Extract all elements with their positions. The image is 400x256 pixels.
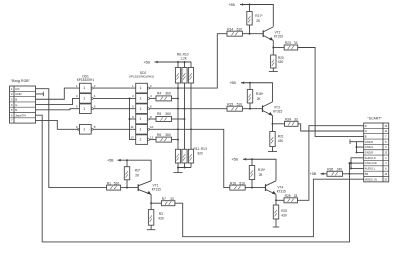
resistor R22 430 — [275, 200, 277, 205]
svg-text:КР1533ЛН1: КР1533ЛН1 — [77, 78, 94, 82]
op DD2.4 inverter pins 9-8 — [136, 114, 148, 124]
svg-text:GND,B: GND,B — [365, 140, 373, 144]
svg-text:R19*: R19* — [258, 168, 266, 172]
svg-text:2К: 2К — [259, 173, 263, 177]
svg-text:R20: R20 — [278, 56, 284, 60]
node junction R14/R17/base — [249, 33, 251, 35]
node junction R4 / v1 — [177, 97, 179, 99]
node junction R line — [177, 128, 179, 130]
svg-text:R11..R13: R11..R13 — [194, 147, 207, 151]
wire: DD1.3 out to DD2.3 in — [93, 108, 136, 110]
resistor R12 820 — [182, 149, 187, 163]
resistor R9 1.2K — [182, 68, 187, 84]
wire: R line DD2.5 out to R16 — [149, 129, 229, 187]
svg-text:КТ315: КТ315 — [152, 188, 161, 192]
svg-text:КТ315: КТ315 — [273, 109, 282, 113]
wire: SCART ground pins 5 9 13 bus — [350, 142, 364, 153]
svg-text:GND,G: GND,G — [365, 145, 374, 149]
wire: pin3 B to DD1.1 input — [36, 88, 80, 99]
op DD1.3 inverter pins 5-6 — [80, 104, 92, 114]
svg-text:R5: R5 — [157, 112, 161, 116]
resistor R21 430 — [272, 124, 274, 132]
svg-text:R6: R6 — [157, 133, 161, 137]
resistor R20 430 — [272, 48, 274, 56]
node junction +5V rail — [177, 61, 179, 63]
svg-text:FB: FB — [365, 172, 369, 176]
node junction R6 / v1 — [177, 139, 179, 141]
svg-text:КР1533ЛН2(ЛН3): КР1533ЛН2(ЛН3) — [129, 75, 154, 79]
wire: DD1.1 out to DD2.1 in — [93, 87, 136, 89]
wire: B line DD2.1 out to R14 — [149, 34, 227, 88]
svg-text:1: 1 — [140, 107, 142, 111]
wire: VT2 output to SCART pin 7 B — [298, 48, 364, 137]
svg-text:13: 13 — [130, 135, 134, 139]
svg-text:B: B — [365, 134, 367, 138]
node junction SCART gnd bus — [356, 146, 358, 148]
svg-text:R18*: R18* — [256, 92, 264, 96]
transistor VT3 KT315 — [262, 105, 264, 112]
svg-text:10: 10 — [150, 125, 154, 129]
svg-text:430: 430 — [278, 139, 284, 143]
resistor R2* 2K — [126, 160, 128, 167]
svg-text:1: 1 — [140, 97, 142, 101]
svg-text:+5В: +5В — [229, 3, 236, 7]
wire: VT4 output to SCART pin 15 R — [298, 126, 364, 201]
svg-text:360: 360 — [165, 133, 171, 137]
ground below R3 — [147, 229, 156, 231]
svg-text:R21: R21 — [278, 135, 284, 139]
wire: R26 to SCART pin 16 FB — [343, 173, 364, 175]
op DD2.1 inverter pins 1-2 — [136, 83, 148, 93]
wire: pin2 GND stub — [36, 93, 44, 95]
svg-text:1: 1 — [140, 117, 142, 121]
svg-text:R2*: R2* — [135, 168, 141, 172]
transistor VT1 KT315 — [137, 184, 139, 191]
svg-text:11: 11 — [131, 125, 134, 129]
wire: DD1.2 out to DD2.2 in — [93, 97, 136, 99]
svg-text:+5В: +5В — [107, 159, 114, 163]
svg-text:КТ315: КТ315 — [277, 189, 286, 193]
svg-text:“SCART”: “SCART” — [368, 117, 383, 121]
svg-text:1: 1 — [140, 86, 142, 90]
op DD1.4 inverter pins 9-8 — [80, 125, 92, 135]
svg-text:430: 430 — [281, 213, 287, 217]
svg-text:360: 360 — [165, 112, 171, 116]
wire: pin6 audio down to bottom rail and up to SCART audio — [36, 115, 350, 242]
svg-text:AUDIO,R: AUDIO,R — [365, 156, 376, 160]
svg-text:Звук/ПЧ: Звук/ПЧ — [15, 113, 26, 117]
resistor R13 820 — [188, 149, 193, 163]
svg-text:B: B — [15, 97, 17, 101]
node junction +5V/R18 — [249, 82, 251, 84]
wire: G line DD2.3 out to R15 — [149, 108, 227, 110]
resistor R10 1.2K — [188, 68, 193, 84]
svg-text:430: 430 — [278, 60, 284, 64]
wire: vertical node buses v1 v2 v3 — [177, 83, 179, 149]
node junction FB/audio-down crossing — [349, 173, 351, 175]
svg-text:GND,R: GND,R — [365, 151, 373, 155]
svg-text:СИ: СИ — [15, 87, 19, 91]
node junction DD2 input bus — [129, 97, 131, 99]
svg-text:+5В: +5В — [310, 172, 317, 176]
node junction +5V/R19 — [251, 158, 253, 160]
op DD2.5 inverter pins 11-10 — [136, 125, 148, 135]
svg-text:R3: R3 — [159, 212, 163, 216]
ground below R21 — [268, 151, 277, 153]
wire: VT3 emitter node — [272, 116, 274, 124]
op DD1.1 inverter pins 1-2 — [80, 83, 92, 93]
ground below R22 — [273, 226, 280, 228]
op DD2.6 inverter pins 13-12 — [136, 135, 148, 145]
wire: VT1 emitter node — [150, 194, 152, 203]
svg-text:430: 430 — [158, 216, 164, 220]
svg-text:R: R — [15, 108, 17, 112]
wire: VT3 output to SCART pin 11 G — [298, 124, 364, 131]
svg-text:G: G — [15, 103, 17, 107]
transistor VT4 KT315 — [265, 184, 267, 191]
wire: video output to SCART pin 20 — [175, 179, 364, 237]
svg-text:G: G — [365, 129, 367, 133]
resistor R3 430 — [150, 203, 152, 209]
svg-text:1,2К: 1,2К — [180, 57, 186, 61]
wire: VT2 emitter node — [272, 41, 274, 48]
connector X1 "Вход RGB" body — [10, 86, 36, 123]
node junction G line — [177, 108, 179, 110]
svg-text:R17*: R17* — [255, 14, 263, 18]
resistor R17* 2K — [249, 5, 251, 12]
svg-text:AUDIO,L: AUDIO,L — [365, 167, 376, 171]
connector X2 "SCART" body — [364, 123, 389, 182]
transistor VT2 KT315 — [262, 30, 264, 37]
svg-text:+5В: +5В — [230, 81, 237, 85]
resistor R19* 2K — [251, 159, 253, 165]
svg-text:+5В: +5В — [232, 158, 239, 162]
svg-text:1: 1 — [83, 107, 85, 111]
op DD1.2 inverter pins 3-4 — [80, 94, 92, 104]
wire: pin5 R to DD1.3 input — [36, 109, 80, 110]
wire: VT4 emitter node — [275, 194, 277, 200]
wire: pin4 G to DD1.2 input — [36, 98, 80, 104]
node junction +5V/R2 — [126, 159, 128, 161]
node junction R16/R19/base — [251, 187, 253, 189]
wire: R11-R13 bottoms tied — [178, 163, 191, 173]
svg-text:1: 1 — [83, 127, 85, 131]
wire: DD1.4 out to DD2.5 in — [93, 128, 136, 130]
svg-text:R: R — [365, 124, 367, 128]
svg-text:GND: GND — [15, 92, 21, 96]
svg-text:R4: R4 — [157, 92, 161, 96]
ground chassis bar SCART — [349, 139, 351, 144]
svg-text:GND,AUD: GND,AUD — [365, 161, 377, 165]
node junction R5 / v2 — [184, 118, 186, 120]
node junction R11-R13 common — [177, 167, 179, 169]
svg-text:R22: R22 — [281, 209, 287, 213]
svg-text:2К: 2К — [257, 97, 261, 101]
node junction B line / v1 — [177, 87, 179, 89]
svg-text:360: 360 — [165, 92, 171, 96]
svg-text:1: 1 — [140, 127, 142, 131]
svg-text:“Вход RGB”: “Вход RGB” — [11, 79, 31, 83]
svg-text:VIDEO, IN: VIDEO, IN — [365, 177, 377, 181]
svg-text:820: 820 — [198, 151, 204, 155]
resistor R18* 2K — [249, 83, 251, 90]
svg-text:1: 1 — [83, 86, 85, 90]
svg-text:КТ315: КТ315 — [274, 34, 283, 38]
node junction +5V/R17 — [249, 4, 251, 6]
svg-text:12: 12 — [150, 135, 154, 139]
wire: pin1 sync to R1 — [36, 89, 107, 188]
node junction R1/R2/base — [126, 187, 128, 189]
wire: SCART pin4 audio gnd stub — [350, 162, 364, 164]
node junction audio bus — [350, 162, 352, 164]
svg-text:2К: 2К — [135, 174, 139, 178]
op DD2.2 inverter pins 3-4 — [136, 94, 148, 104]
svg-text:+5В: +5В — [144, 60, 151, 64]
ground below R20 — [269, 71, 278, 73]
wire: pin7 to DD1.4 input — [36, 120, 79, 129]
svg-text:1: 1 — [140, 138, 142, 142]
ground below R11-R13 — [173, 172, 182, 174]
op DD2.3 inverter pins 5-6 — [136, 104, 148, 114]
svg-text:1: 1 — [83, 97, 85, 101]
node junction R15/R18/base — [249, 108, 251, 110]
ground chassis bar at connector pin2 — [42, 92, 44, 97]
wire: branch bus to DD2.4 and DD2.6 inputs — [130, 98, 136, 139]
svg-text:2К: 2К — [256, 19, 260, 23]
wire: SCART audio pins 2 and 6 tied — [351, 158, 364, 169]
